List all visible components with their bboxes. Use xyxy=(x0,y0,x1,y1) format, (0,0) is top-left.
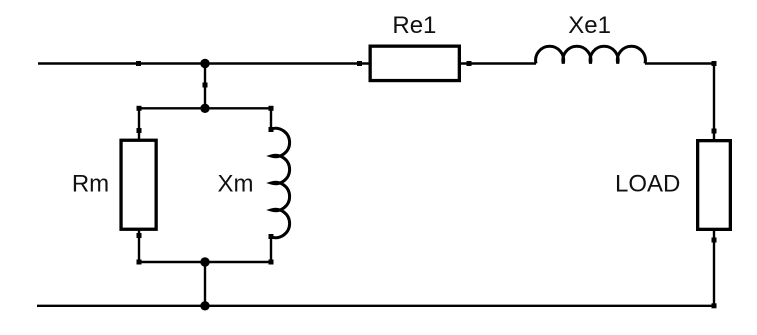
svg-text:Xe1: Xe1 xyxy=(568,12,611,39)
svg-text:Xm: Xm xyxy=(218,171,254,198)
svg-text:Rm: Rm xyxy=(72,171,109,198)
svg-text:LOAD: LOAD xyxy=(615,171,680,198)
svg-text:Re1: Re1 xyxy=(392,12,436,39)
